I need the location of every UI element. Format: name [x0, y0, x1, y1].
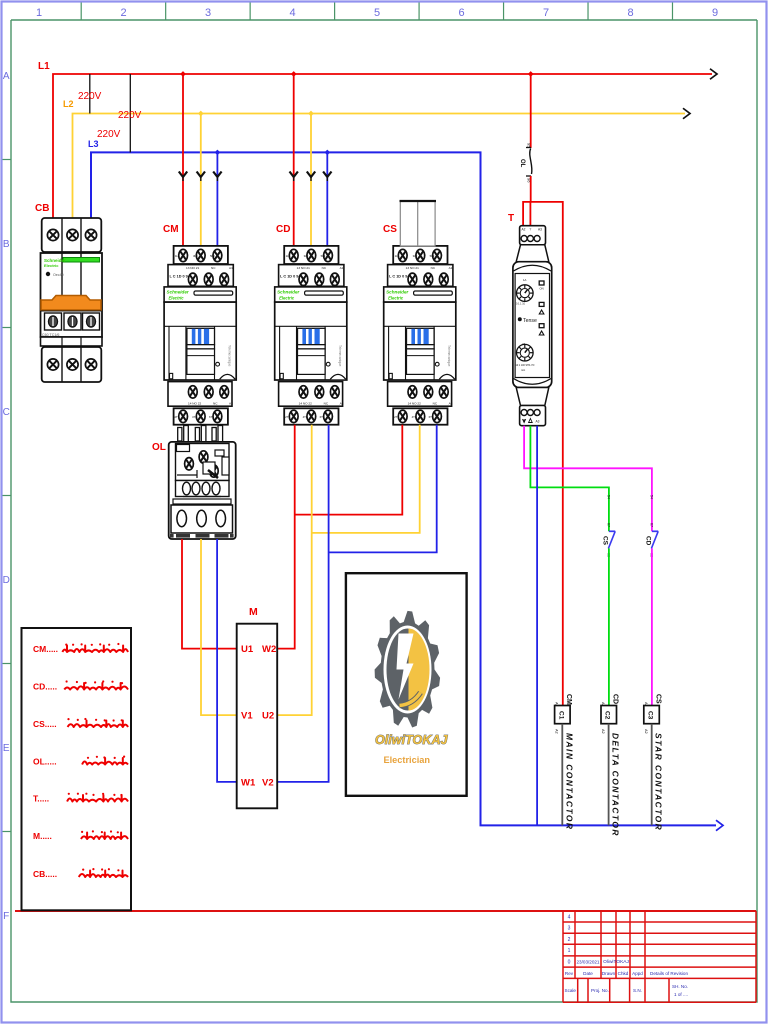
svg-text:6T3: 6T3 — [320, 415, 325, 419]
svg-text:Schneider: Schneider — [386, 290, 408, 295]
OL auxiliary contact 95-96 — [519, 143, 532, 183]
svg-text:5: 5 — [374, 7, 380, 19]
arrows into contactors — [179, 172, 332, 182]
wire timer neutral blue — [536, 426, 538, 826]
svg-text:L1: L1 — [38, 61, 50, 72]
svg-text:CS.....: CS..... — [33, 719, 57, 729]
measure line 220V L1-L2 — [89, 74, 91, 114]
svg-text:220V: 220V — [118, 110, 142, 121]
svg-text:A2: A2 — [449, 402, 453, 406]
svg-text:5L3: 5L3 — [210, 254, 215, 258]
svg-text:6: 6 — [458, 7, 464, 19]
svg-text:4: 4 — [568, 914, 571, 920]
wire L1 to OL contact — [530, 74, 532, 148]
wire V1 yellow — [201, 539, 237, 715]
svg-text:CD: CD — [612, 694, 619, 704]
svg-text:?: ? — [530, 228, 532, 232]
svg-text:NC: NC — [322, 266, 327, 270]
CS cable duct — [400, 201, 437, 246]
svg-text:54: 54 — [606, 495, 610, 499]
svg-text:M: M — [249, 606, 258, 618]
wire drop CD L1 — [293, 74, 295, 247]
wire W2-CD-CS red — [277, 425, 402, 649]
svg-text:1: 1 — [568, 948, 571, 954]
timer T — [513, 226, 552, 426]
svg-text:CB: CB — [35, 203, 49, 214]
svg-text:W2: W2 — [262, 644, 276, 655]
svg-text:C3: C3 — [647, 711, 654, 720]
svg-text:Telemecanique: Telemecanique — [228, 345, 232, 367]
svg-text:Electric: Electric — [44, 263, 59, 268]
svg-text:CS: CS — [654, 694, 661, 704]
svg-text:NC: NC — [433, 402, 438, 406]
label 220V c — [97, 129, 121, 140]
svg-text:T.....: T..... — [33, 794, 49, 804]
label L1 — [38, 61, 50, 72]
wire U2-CD-CS yellow — [277, 425, 420, 715]
wire drop CM L3 — [216, 152, 218, 246]
svg-text:3: 3 — [205, 7, 211, 19]
svg-text:U2: U2 — [262, 711, 274, 722]
wire OL contact to tee — [530, 176, 532, 202]
svg-text:10 1 100 STR-YD: 10 1 100 STR-YD — [516, 364, 535, 367]
svg-text:C: C — [3, 407, 10, 418]
svg-text:2: 2 — [120, 7, 126, 19]
svg-text:6T3: 6T3 — [209, 415, 214, 419]
svg-text:W1: W1 — [241, 777, 256, 788]
svg-text:7: 7 — [543, 7, 549, 19]
svg-text:8: 8 — [627, 7, 633, 19]
svg-text:4: 4 — [289, 7, 295, 19]
overload relay OL — [169, 442, 236, 539]
svg-text:1 of ....: 1 of .... — [674, 992, 688, 997]
wire L1 phase — [53, 69, 717, 218]
wire contact to CS coil — [651, 548, 653, 705]
svg-text:14 NO 22: 14 NO 22 — [408, 402, 422, 406]
svg-text:Drawn: Drawn — [602, 971, 616, 976]
svg-text:13 NO 21: 13 NO 21 — [406, 266, 420, 270]
svg-text:A2: A2 — [601, 729, 605, 734]
svg-text:2T1: 2T1 — [394, 415, 399, 419]
svg-text:1: 1 — [36, 7, 42, 19]
svg-text:Electrician: Electrician — [384, 755, 431, 765]
label CM — [163, 224, 179, 235]
svg-text:A2: A2 — [229, 402, 233, 406]
svg-text:A2: A2 — [522, 228, 526, 232]
svg-text:B: B — [3, 239, 10, 250]
svg-text:CM: CM — [565, 694, 572, 705]
svg-text:V2: V2 — [262, 777, 274, 788]
svg-text:13 NO 21: 13 NO 21 — [186, 266, 200, 270]
svg-text:6T3: 6T3 — [429, 415, 434, 419]
svg-text:1L1: 1L1 — [175, 254, 180, 258]
label 220V a — [78, 91, 102, 102]
svg-text:3L2: 3L2 — [193, 254, 198, 258]
label CD — [276, 224, 290, 235]
title block top rule — [15, 910, 756, 912]
svg-text:DELTA CONTACTOR: DELTA CONTACTOR — [611, 733, 621, 837]
wire timer star magenta — [524, 426, 652, 532]
svg-text:OliwiTOKAJ: OliwiTOKAJ — [603, 959, 629, 965]
svg-text:L2: L2 — [63, 99, 74, 109]
wire contact to CD coil — [608, 548, 610, 705]
svg-text:2T1: 2T1 — [175, 415, 180, 419]
svg-text:0: 0 — [568, 960, 571, 966]
svg-text:Appd: Appd — [632, 971, 643, 976]
svg-text:A2: A2 — [644, 729, 648, 734]
svg-text:Telemecanique: Telemecanique — [338, 345, 342, 367]
svg-text:L C 1D 0 9: L C 1D 0 9 — [389, 275, 407, 279]
wire drop CD L3 — [326, 152, 328, 246]
svg-text:S.N.: S.N. — [633, 988, 642, 993]
svg-text:3: 3 — [568, 926, 571, 932]
label CB — [35, 203, 49, 214]
wire U1 red — [182, 539, 237, 649]
wire L2 phase — [73, 108, 691, 218]
logo box OliwiTOKAJ — [346, 573, 467, 796]
svg-text:Electric: Electric — [279, 296, 295, 301]
svg-text:Proj. No.: Proj. No. — [591, 988, 609, 993]
wire timer delta green — [530, 426, 609, 532]
svg-text:OL: OL — [152, 442, 166, 453]
label 220V b — [118, 110, 142, 121]
svg-text:OL: OL — [519, 159, 525, 168]
svg-text:Chkd: Chkd — [618, 971, 629, 976]
svg-text:2A: 2A — [522, 342, 526, 346]
svg-text:A2: A2 — [555, 729, 559, 734]
svg-text:M.....: M..... — [33, 831, 52, 841]
svg-text:A: A — [3, 71, 10, 82]
wire drop CD L2 — [310, 114, 312, 247]
aux contact CS NC — [601, 495, 615, 557]
svg-text:23/03/2021: 23/03/2021 — [577, 960, 600, 965]
svg-text:F: F — [3, 911, 9, 922]
svg-text:CD.....: CD..... — [33, 682, 57, 692]
svg-text:1L1: 1L1 — [286, 254, 291, 258]
svg-text:3L2: 3L2 — [413, 254, 418, 258]
svg-text:Oec40: Oec40 — [53, 273, 64, 277]
wire drop CM L2 — [200, 114, 202, 247]
svg-text:CM.....: CM..... — [33, 644, 58, 654]
title block — [563, 911, 756, 1003]
circuit breaker CB — [41, 218, 103, 382]
svg-text:NC: NC — [431, 266, 436, 270]
svg-text:Date: Date — [583, 971, 593, 976]
svg-text:220V: 220V — [97, 129, 121, 140]
label L3 — [88, 139, 99, 149]
svg-text:67: 67 — [606, 523, 610, 527]
svg-text:Schneider: Schneider — [277, 290, 299, 295]
svg-text:CB.....: CB..... — [33, 869, 57, 879]
svg-text:V1: V1 — [241, 711, 253, 722]
svg-text:A3: A3 — [536, 420, 540, 424]
svg-text:5L3: 5L3 — [321, 254, 326, 258]
svg-text:9: 9 — [712, 7, 718, 19]
svg-text:Tense: Tense — [523, 318, 537, 324]
label CS — [383, 224, 397, 235]
aux contact CD NC — [644, 495, 658, 557]
svg-text:Details of Revision: Details of Revision — [650, 971, 688, 976]
svg-text:L C 1D 0 9: L C 1D 0 9 — [280, 275, 298, 279]
svg-text:Rev: Rev — [565, 971, 574, 976]
svg-text:A3: A3 — [538, 228, 542, 232]
svg-text:Telemecanique: Telemecanique — [447, 345, 451, 367]
motor terminal box M — [237, 624, 278, 809]
contactor CM — [164, 246, 236, 425]
svg-text:A2: A2 — [340, 402, 344, 406]
svg-text:T: T — [508, 213, 514, 224]
svg-text:CM: CM — [163, 224, 179, 235]
svg-text:13 NO 21: 13 NO 21 — [297, 266, 311, 270]
svg-text:NC: NC — [211, 266, 216, 270]
svg-text:3L2: 3L2 — [304, 254, 309, 258]
svg-text:67: 67 — [649, 523, 653, 527]
svg-text:CD: CD — [276, 224, 290, 235]
svg-text:Electric: Electric — [169, 296, 185, 301]
svg-text:54: 54 — [649, 495, 653, 499]
label OL — [152, 442, 166, 453]
svg-text:Scale: Scale — [565, 988, 577, 993]
svg-text:C2: C2 — [604, 711, 611, 720]
measure line 220V L1-L3 — [129, 74, 131, 152]
svg-text:OL.....: OL..... — [33, 757, 57, 767]
svg-text:Schneider: Schneider — [167, 290, 189, 295]
svg-text:2: 2 — [568, 937, 571, 943]
svg-text:NC: NC — [324, 402, 329, 406]
svg-text:14 NO 22: 14 NO 22 — [299, 402, 313, 406]
svg-text:ON: ON — [540, 287, 544, 291]
svg-text:14 NO 22: 14 NO 22 — [188, 402, 202, 406]
svg-text:SH. No.: SH. No. — [672, 984, 688, 989]
svg-text:A1: A1 — [449, 266, 453, 270]
svg-text:L3: L3 — [88, 139, 99, 149]
svg-text:D: D — [3, 575, 10, 586]
coil CM — [555, 694, 575, 830]
svg-text:CD: CD — [644, 536, 651, 546]
coil CS — [644, 694, 664, 831]
svg-text:Electric: Electric — [388, 296, 404, 301]
legend box — [22, 628, 132, 910]
svg-text:U1: U1 — [241, 644, 254, 655]
svg-text:0.1 1 10: 0.1 1 10 — [516, 303, 526, 306]
svg-text:NC: NC — [213, 402, 218, 406]
svg-text:1L1: 1L1 — [395, 254, 400, 258]
CM to OL connection tabs — [178, 426, 223, 443]
svg-text:STAR CONTACTOR: STAR CONTACTOR — [654, 733, 664, 831]
svg-text:2T1: 2T1 — [285, 415, 290, 419]
svg-text:CS: CS — [601, 536, 608, 546]
label M — [249, 606, 258, 618]
wire V2-CD-CS blue — [277, 425, 437, 782]
label L2 — [63, 99, 74, 109]
wire drop CM L1 — [182, 74, 184, 247]
wire tee to timer — [523, 202, 563, 706]
svg-text:OliwiTOKAJ: OliwiTOKAJ — [375, 733, 449, 747]
svg-text:L C 1D 0 9: L C 1D 0 9 — [170, 275, 188, 279]
wire W1 blue — [217, 539, 237, 782]
contactor CD — [275, 246, 347, 425]
svg-text:A1: A1 — [340, 266, 344, 270]
svg-text:CS: CS — [383, 224, 397, 235]
svg-text:4T2: 4T2 — [412, 415, 417, 419]
svg-text:C1: C1 — [557, 711, 564, 720]
contactor CS — [384, 246, 456, 425]
svg-text:min: min — [521, 368, 526, 372]
junction dots — [180, 71, 533, 155]
svg-text:220V: 220V — [78, 91, 102, 102]
svg-text:A1: A1 — [229, 266, 233, 270]
svg-text:4T2: 4T2 — [192, 415, 197, 419]
label T — [508, 213, 514, 224]
svg-text:5L3: 5L3 — [430, 254, 435, 258]
coil CD — [601, 694, 621, 837]
wire L3 phase — [91, 152, 723, 830]
svg-text:MAIN CONTACTOR: MAIN CONTACTOR — [564, 733, 574, 830]
svg-text:4T2: 4T2 — [303, 415, 308, 419]
svg-text:E: E — [3, 743, 10, 754]
svg-text:1A: 1A — [523, 278, 527, 282]
